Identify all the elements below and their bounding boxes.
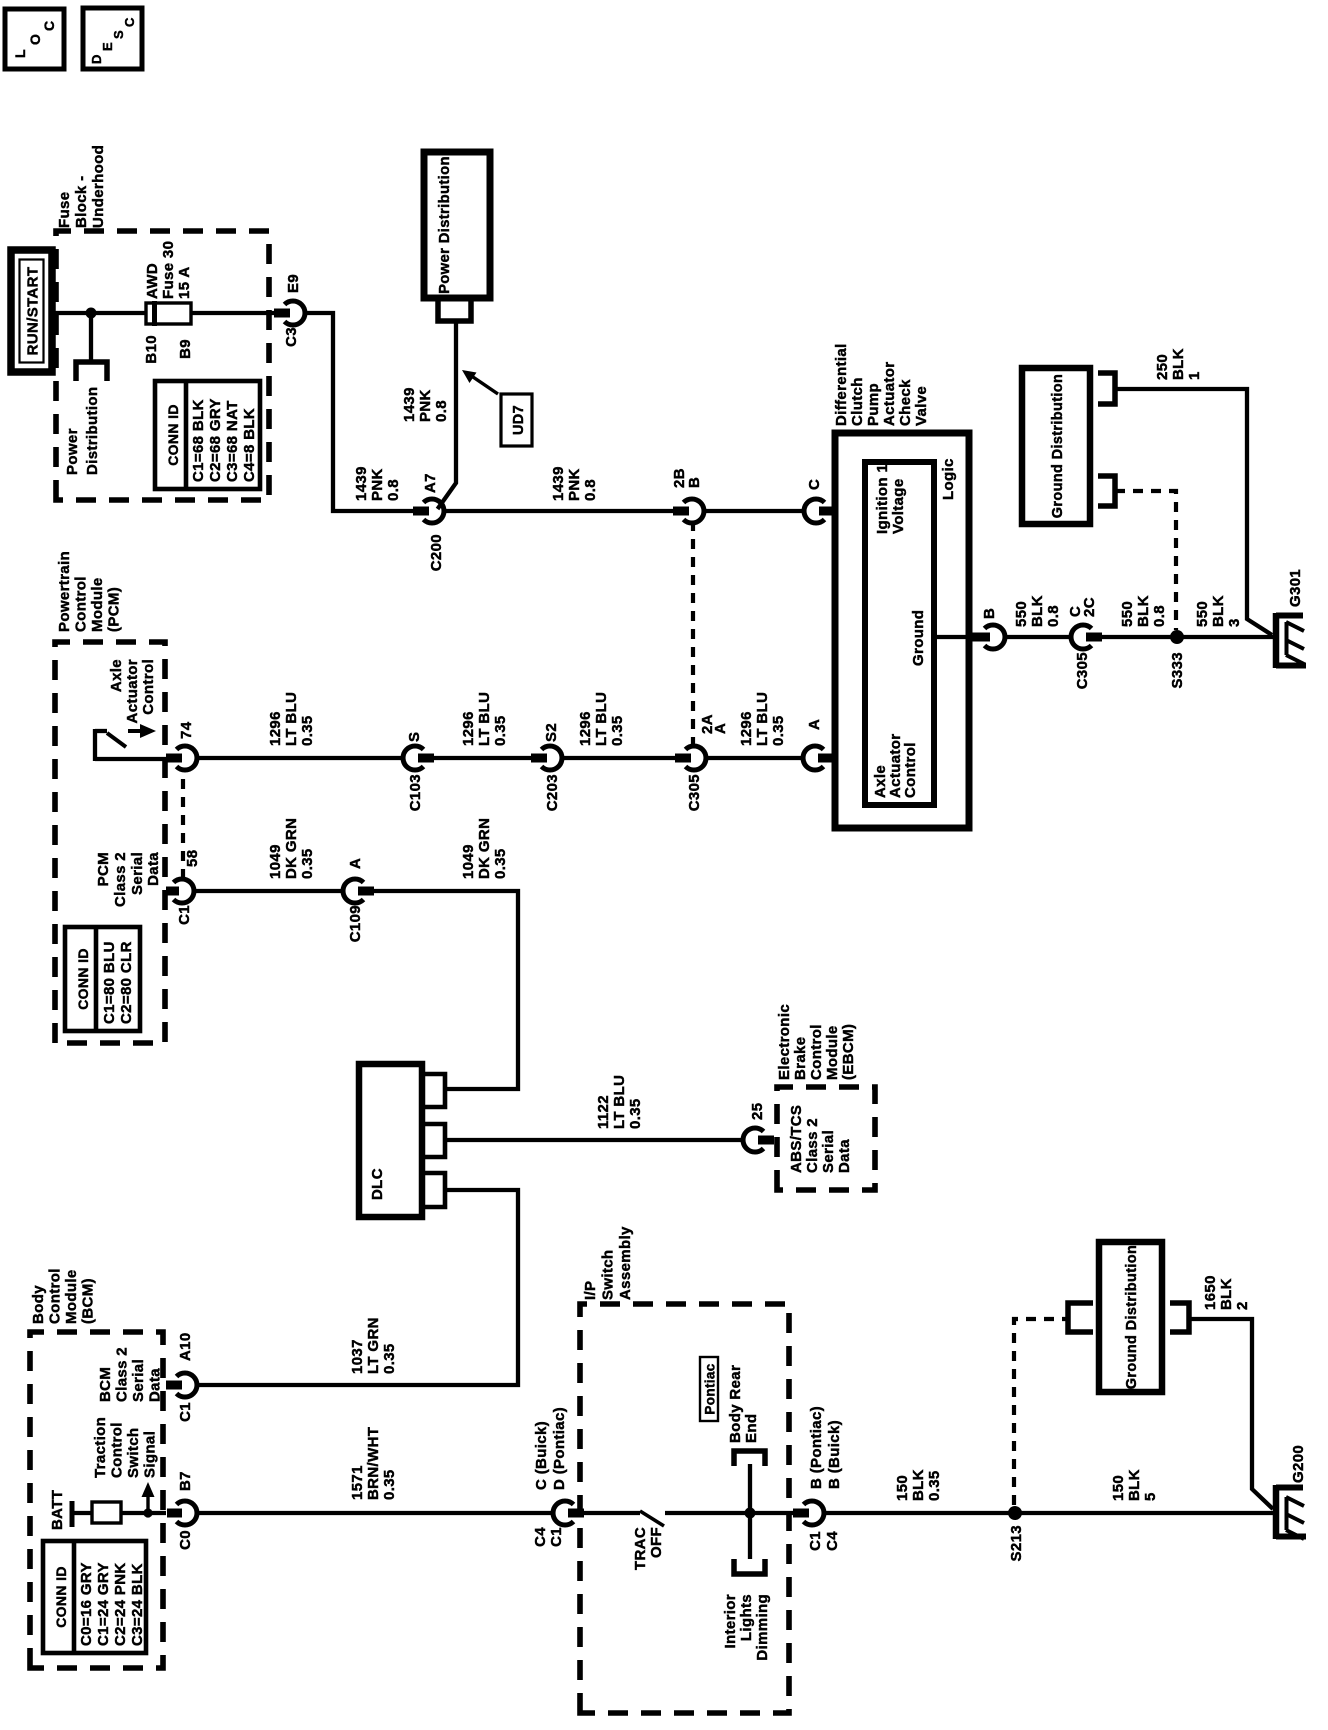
- svg-text:Valve: Valve: [913, 386, 930, 426]
- svg-text:End: End: [743, 1414, 760, 1443]
- svg-text:Pump: Pump: [865, 383, 882, 426]
- svg-text:S213: S213: [1008, 1525, 1025, 1561]
- svg-text:B (Pontiac): B (Pontiac): [808, 1406, 825, 1489]
- svg-text:C0=16 GRY: C0=16 GRY: [78, 1562, 95, 1646]
- wire branch to power distribution bracket: [89, 313, 93, 362]
- svg-text:0.8: 0.8: [385, 479, 402, 501]
- bracket ground distribution dashed: [1098, 476, 1115, 506]
- svg-text:1439: 1439: [550, 466, 567, 501]
- svg-text:Data: Data: [145, 852, 162, 886]
- svg-text:Interior: Interior: [722, 1594, 739, 1648]
- svg-text:Dimming: Dimming: [754, 1594, 771, 1661]
- UD7 option callout: [462, 370, 532, 446]
- svg-text:PNK: PNK: [369, 468, 386, 501]
- svg-text:150: 150: [894, 1475, 911, 1501]
- connector C305 cavity 2B / B: [671, 468, 704, 523]
- svg-text:1439: 1439: [353, 466, 370, 501]
- svg-text:C1=68 BLK: C1=68 BLK: [190, 399, 207, 482]
- svg-text:0.8: 0.8: [1151, 605, 1168, 627]
- splice S333: [1169, 630, 1186, 688]
- svg-text:A10: A10: [177, 1332, 194, 1361]
- page bracket Interior Lights Dimming: [734, 1559, 765, 1574]
- svg-text:UD7: UD7: [511, 405, 527, 435]
- svg-text:C305: C305: [686, 774, 703, 811]
- svg-text:Fuse: Fuse: [56, 192, 73, 228]
- svg-text:Control: Control: [140, 659, 157, 715]
- svg-text:Power Distribution: Power Distribution: [437, 156, 453, 294]
- wire 1037 LT GRN DLC to BCM A10: [196, 1190, 518, 1385]
- wire 1049 DK GRN pin58 to C109: [193, 889, 344, 893]
- wire label 1037 LT GRN 0.35: [349, 1317, 398, 1374]
- svg-text:B: B: [981, 608, 998, 619]
- svg-text:5: 5: [1142, 1492, 1159, 1501]
- junction traction signal: [143, 1508, 152, 1517]
- wire 1650 BLK 2 to G200: [1189, 1319, 1273, 1509]
- wire 1296 LT BLU C305 to valve pin A: [705, 756, 804, 760]
- svg-text:1: 1: [1186, 371, 1203, 380]
- connector C103 / S: [403, 732, 434, 812]
- valve connector pin B: [972, 608, 1005, 649]
- ABS/TCS Class 2 Serial Data label: [788, 1105, 853, 1173]
- connector C305 cavity C / 2C: [1067, 597, 1102, 689]
- svg-text:G301: G301: [1287, 569, 1304, 607]
- Traction Control Switch Signal label: [92, 1417, 159, 1478]
- wire 1571 BRN/WHT B7 to I/P: [196, 1511, 554, 1515]
- wire label 1049 DK GRN 0.35 (PCM-C109): [267, 818, 316, 879]
- BCM CONN ID table: [43, 1541, 146, 1653]
- svg-text:Power: Power: [64, 428, 81, 475]
- svg-text:Data: Data: [836, 1139, 853, 1173]
- svg-text:Ground Distribution: Ground Distribution: [1050, 374, 1066, 518]
- svg-text:Body Rear: Body Rear: [727, 1365, 744, 1443]
- wire 250 BLK 1 to G301: [1115, 389, 1272, 635]
- svg-text:CONN ID: CONN ID: [165, 404, 181, 466]
- svg-text:C109: C109: [347, 905, 364, 942]
- svg-text:A: A: [806, 719, 823, 730]
- svg-text:C3=68 NAT: C3=68 NAT: [224, 400, 241, 482]
- svg-text:C2=80 CLR: C2=80 CLR: [118, 941, 135, 1024]
- svg-text:0.35: 0.35: [381, 1469, 398, 1500]
- svg-text:Axle: Axle: [108, 659, 125, 692]
- svg-text:0.35: 0.35: [627, 1098, 644, 1129]
- connector C3 / E9: [274, 274, 305, 347]
- svg-text:C0: C0: [177, 1530, 194, 1550]
- svg-text:B9: B9: [177, 339, 194, 359]
- splice S213: [1008, 1506, 1025, 1561]
- svg-text:C (Buick): C (Buick): [533, 1421, 550, 1490]
- BCM pin A10: [166, 1332, 197, 1421]
- Differential Clutch Pump Actuator Check Valve label: [833, 343, 930, 426]
- PCM pin 58: [166, 850, 201, 925]
- svg-text:Block -: Block -: [73, 176, 90, 228]
- page bracket Body Rear End: [734, 1451, 765, 1466]
- svg-text:DLC: DLC: [369, 1168, 386, 1200]
- svg-text:TRAC: TRAC: [632, 1527, 649, 1570]
- svg-text:25: 25: [749, 1103, 766, 1120]
- svg-text:C4: C4: [532, 1527, 549, 1547]
- Power Distribution box: [424, 152, 490, 298]
- wire label 1296 LT BLU 0.35 (C305-valve): [738, 692, 787, 746]
- Ground Distribution box (engine): [1022, 368, 1090, 524]
- svg-text:B: B: [686, 477, 703, 488]
- wire 1439 PNK C305 to valve pin C: [703, 509, 805, 513]
- svg-text:I/P: I/P: [582, 1281, 599, 1300]
- svg-text:LT BLU: LT BLU: [283, 692, 300, 746]
- svg-text:1650: 1650: [1202, 1275, 1219, 1310]
- connector C203 / S2: [531, 723, 562, 811]
- bracket ground distribution (upper): [1068, 1303, 1093, 1332]
- BCM Class 2 Serial Data label: [97, 1347, 164, 1402]
- svg-text:C203: C203: [544, 774, 561, 811]
- wire fuse to connector E9: [191, 311, 276, 315]
- svg-text:S: S: [111, 30, 126, 39]
- svg-text:C: C: [806, 479, 823, 490]
- wire 1296 LT BLU pin74 to C103: [196, 756, 404, 760]
- svg-text:D: D: [89, 54, 104, 64]
- svg-text:Differential: Differential: [833, 343, 850, 426]
- svg-text:C3=24 BLK: C3=24 BLK: [129, 1563, 146, 1646]
- PCM pin 74: [166, 721, 197, 770]
- svg-text:Check: Check: [897, 379, 914, 426]
- dashed wire S213 to ground distribution: [1014, 1319, 1066, 1505]
- svg-text:LT BLU: LT BLU: [593, 692, 610, 746]
- svg-text:1439: 1439: [401, 387, 418, 422]
- svg-text:250: 250: [1154, 354, 1171, 380]
- svg-text:PNK: PNK: [566, 468, 583, 501]
- svg-text:BCM: BCM: [97, 1367, 114, 1402]
- page bracket Power Distribution (fuse block): [76, 362, 107, 381]
- svg-text:LT GRN: LT GRN: [365, 1317, 382, 1374]
- svg-text:BATT: BATT: [49, 1490, 66, 1530]
- Axle Actuator Control label (valve): [872, 734, 919, 798]
- ground G200: [1276, 1445, 1307, 1539]
- EBCM pin 25: [743, 1103, 774, 1152]
- wire label 1296 LT BLU 0.35 (PCM-C103): [267, 692, 316, 746]
- connector I/P exit B Pontiac B Buick: [793, 1406, 843, 1551]
- valve connector pin C: [804, 479, 835, 523]
- RUN/START power feed box: [11, 250, 52, 372]
- Electronic Brake Control Module (EBCM) label: [776, 1004, 857, 1080]
- svg-text:B (Buick): B (Buick): [826, 1420, 843, 1489]
- svg-text:0.35: 0.35: [492, 848, 509, 879]
- svg-text:Data: Data: [147, 1368, 164, 1402]
- svg-text:0.35: 0.35: [299, 848, 316, 879]
- svg-text:C200: C200: [428, 534, 445, 571]
- svg-text:A7: A7: [422, 473, 439, 493]
- svg-text:Fuse 30: Fuse 30: [160, 241, 177, 299]
- connector C305 cavity 2A / A: [675, 714, 729, 811]
- PCM Class 2 Serial Data label: [95, 852, 162, 907]
- connector C200 / A7: [413, 473, 445, 571]
- Body Rear End label: [727, 1365, 760, 1443]
- svg-text:Clutch: Clutch: [849, 377, 866, 426]
- svg-text:B7: B7: [177, 1471, 194, 1491]
- wire label 1122 LT BLU 0.35: [595, 1075, 644, 1129]
- svg-text:S333: S333: [1169, 652, 1186, 688]
- svg-text:OFF: OFF: [648, 1527, 665, 1558]
- Data Link Connector DLC box: [359, 1064, 422, 1217]
- BATT feed bar: [49, 1490, 72, 1530]
- svg-text:2C: 2C: [1081, 597, 1098, 617]
- I/P Switch Assembly dashed box: [580, 1304, 789, 1713]
- svg-text:1571: 1571: [349, 1465, 366, 1500]
- svg-text:Class 2: Class 2: [804, 1118, 821, 1173]
- svg-text:C1: C1: [548, 1527, 565, 1547]
- fuse block underhood dashed box: [56, 231, 269, 500]
- svg-text:DK GRN: DK GRN: [283, 818, 300, 879]
- wire 550 BLK C305 to S333: [1100, 635, 1274, 639]
- svg-text:1049: 1049: [267, 844, 284, 879]
- svg-text:1122: 1122: [595, 1095, 612, 1129]
- svg-text:C: C: [122, 17, 137, 27]
- svg-text:C2=68 GRY: C2=68 GRY: [207, 398, 224, 482]
- wire label 1296 LT BLU 0.35 (C103-C203): [460, 692, 509, 746]
- Power Distribution reference label: [64, 387, 101, 475]
- wire resistor to pin B7: [121, 1511, 166, 1515]
- wire label 150 BLK 5: [1110, 1469, 1159, 1501]
- svg-text:C103: C103: [407, 774, 424, 811]
- svg-text:S: S: [406, 732, 423, 742]
- wire RUN/START to fuse B10: [52, 311, 146, 315]
- svg-text:Control: Control: [808, 1024, 825, 1080]
- Powertrain Control Module (PCM) label: [56, 551, 123, 632]
- traction signal arrow: [142, 1482, 155, 1513]
- TRAC OFF switch blade: [640, 1511, 664, 1526]
- wire label 1439 PNK 0.8 (C200-C305): [550, 466, 599, 501]
- wire label 250 BLK 1: [1154, 348, 1203, 380]
- PCM axle actuator driver symbol: [95, 724, 168, 761]
- svg-text:Module: Module: [63, 1269, 80, 1324]
- svg-text:L: L: [12, 49, 28, 58]
- wire into TRAC OFF switch: [582, 1511, 640, 1515]
- svg-text:BLK: BLK: [1135, 595, 1152, 627]
- wire label 1650 BLK 2: [1202, 1275, 1251, 1310]
- svg-text:C4: C4: [824, 1531, 841, 1551]
- svg-text:(PCM): (PCM): [106, 587, 123, 632]
- Fuse Block - Underhood label: [56, 145, 107, 228]
- Pontiac tag: [700, 1357, 718, 1421]
- Interior Lights Dimming label: [722, 1594, 771, 1661]
- svg-text:BLK: BLK: [1029, 595, 1046, 627]
- wire 1122 LT BLU DLC to EBCM: [445, 1138, 744, 1142]
- wire 1439 PNK C200 to C305 2B: [443, 509, 675, 513]
- svg-text:0.35: 0.35: [609, 715, 626, 746]
- svg-text:C: C: [41, 21, 57, 31]
- wire label 150 BLK 0.35: [894, 1469, 943, 1501]
- svg-text:C3: C3: [283, 327, 300, 347]
- svg-text:PCM: PCM: [95, 852, 112, 886]
- svg-text:BLK: BLK: [1170, 348, 1187, 380]
- svg-text:BLK: BLK: [1218, 1278, 1235, 1310]
- svg-text:3: 3: [1226, 618, 1243, 627]
- DESC button: [83, 8, 142, 69]
- fuse AWD Fuse 30 15 A: [144, 241, 193, 326]
- wire 1296 LT BLU C203 to C305: [561, 756, 677, 760]
- Axle Actuator Control label (PCM): [108, 659, 157, 723]
- svg-text:1296: 1296: [738, 711, 755, 746]
- svg-text:Voltage: Voltage: [890, 478, 907, 534]
- svg-text:Powertrain: Powertrain: [56, 551, 73, 632]
- DLC pin stub 3: [422, 1173, 445, 1207]
- svg-text:15 A: 15 A: [176, 266, 193, 299]
- svg-text:C2=24 PNK: C2=24 PNK: [112, 1562, 129, 1646]
- valve logic inner box: [865, 462, 934, 805]
- svg-text:LT BLU: LT BLU: [754, 692, 771, 746]
- svg-text:G200: G200: [1290, 1445, 1307, 1483]
- svg-text:Logic: Logic: [940, 458, 957, 500]
- svg-text:1296: 1296: [267, 711, 284, 746]
- svg-text:Ignition 1: Ignition 1: [874, 464, 891, 534]
- svg-text:Ground Distribution: Ground Distribution: [1124, 1245, 1140, 1389]
- wire label 1296 LT BLU 0.35 (C203-C305): [577, 692, 626, 746]
- wire label 1049 DK GRN 0.35 (C109-DLC): [460, 818, 509, 879]
- svg-text:(EBCM): (EBCM): [840, 1024, 857, 1080]
- bracket ground distribution (lower): [1170, 1303, 1189, 1332]
- ground G301: [1276, 569, 1306, 668]
- svg-text:Serial: Serial: [820, 1130, 837, 1173]
- connector C4 C1 (I/P entry): [532, 1407, 584, 1547]
- Electronic Brake Control Module (EBCM) dashed box: [777, 1087, 875, 1190]
- svg-text:C1: C1: [176, 905, 193, 925]
- svg-text:2: 2: [1234, 1301, 1251, 1310]
- svg-text:Class 2: Class 2: [114, 1347, 131, 1402]
- svg-text:550: 550: [1119, 601, 1136, 627]
- wire 550 BLK valve to C305: [1004, 635, 1072, 639]
- svg-text:O: O: [27, 34, 43, 45]
- svg-text:0.35: 0.35: [770, 715, 787, 746]
- svg-text:Serial: Serial: [129, 852, 146, 895]
- svg-text:E: E: [100, 42, 115, 51]
- wire label 550 BLK 0.8 (valve-C305): [1013, 595, 1062, 627]
- svg-text:C1=80 BLU: C1=80 BLU: [101, 941, 118, 1024]
- svg-text:AWD: AWD: [144, 263, 161, 299]
- wire label 1571 BRN/WHT 0.35: [349, 1427, 398, 1500]
- svg-text:Control: Control: [47, 1268, 64, 1324]
- svg-text:0.35: 0.35: [381, 1343, 398, 1374]
- svg-text:C1=24 GRY: C1=24 GRY: [95, 1562, 112, 1646]
- wire 1439 PNK E9 to C200 A7: [304, 313, 415, 511]
- junction interior lights dimming: [745, 1508, 756, 1519]
- bracket under Power Distribution box: [438, 301, 471, 321]
- svg-text:Module: Module: [824, 1025, 841, 1080]
- svg-text:0.8: 0.8: [582, 479, 599, 501]
- svg-text:Distribution: Distribution: [84, 387, 101, 475]
- svg-text:CONN ID: CONN ID: [75, 948, 91, 1010]
- bracket ground distribution 250 BLK: [1098, 373, 1115, 404]
- svg-text:D (Pontiac): D (Pontiac): [551, 1407, 568, 1490]
- svg-text:1296: 1296: [577, 711, 594, 746]
- fuse block CONN ID table: [155, 381, 260, 489]
- svg-text:0.35: 0.35: [492, 715, 509, 746]
- svg-text:Serial: Serial: [130, 1359, 147, 1402]
- svg-text:0.8: 0.8: [433, 400, 450, 422]
- svg-text:Actuator: Actuator: [124, 659, 141, 723]
- Body Control Module (BCM) dashed box: [30, 1332, 163, 1668]
- LOC button: [5, 9, 64, 69]
- svg-text:Brake: Brake: [792, 1037, 809, 1080]
- wire BATT to resistor: [74, 1511, 92, 1515]
- svg-text:DK GRN: DK GRN: [476, 818, 493, 879]
- svg-text:PNK: PNK: [417, 389, 434, 422]
- svg-text:1296: 1296: [460, 711, 477, 746]
- svg-text:0.35: 0.35: [926, 1470, 943, 1501]
- junction node power feed: [86, 308, 97, 319]
- svg-text:S2: S2: [543, 723, 560, 742]
- svg-text:0.8: 0.8: [1045, 605, 1062, 627]
- svg-text:C305: C305: [1074, 652, 1091, 689]
- svg-text:Signal: Signal: [142, 1431, 159, 1478]
- svg-text:Control: Control: [73, 576, 90, 632]
- svg-text:550: 550: [1013, 601, 1030, 627]
- svg-text:Switch: Switch: [125, 1428, 142, 1478]
- svg-text:(BCM): (BCM): [80, 1278, 97, 1324]
- DLC pin stub 2: [422, 1124, 445, 1157]
- wire 150 BLK I/P to S213: [823, 1511, 1274, 1515]
- wire 1439 PNK power distribution branch: [438, 321, 457, 509]
- wire to interior lights dimming bracket: [748, 1515, 752, 1559]
- svg-text:B10: B10: [143, 335, 160, 364]
- svg-text:Class 2: Class 2: [112, 852, 129, 907]
- svg-text:LT BLU: LT BLU: [611, 1075, 628, 1129]
- I/P Switch Assembly label: [582, 1226, 634, 1300]
- Ignition 1 Voltage label: [874, 464, 907, 534]
- svg-text:0.35: 0.35: [299, 715, 316, 746]
- svg-text:A: A: [712, 723, 729, 734]
- svg-text:58: 58: [184, 850, 201, 867]
- svg-text:Traction: Traction: [92, 1417, 109, 1478]
- dashed connector line C305: [691, 522, 695, 747]
- svg-text:C4=8 BLK: C4=8 BLK: [241, 408, 258, 482]
- svg-text:ABS/TCS: ABS/TCS: [788, 1105, 805, 1173]
- DLC pin stub 1: [422, 1074, 445, 1107]
- dashed wire ground distribution to S333: [1115, 491, 1176, 630]
- wire to body rear end bracket: [748, 1464, 752, 1511]
- svg-text:BLK: BLK: [1126, 1469, 1143, 1501]
- svg-text:RUN/START: RUN/START: [25, 267, 42, 356]
- connector C109 / A: [343, 858, 374, 942]
- svg-text:C1: C1: [807, 1531, 824, 1551]
- Powertrain Control Module (PCM) dashed box: [55, 642, 165, 1043]
- wire label 550 BLK 0.8 (C305-S333): [1119, 595, 1168, 627]
- svg-text:BLK: BLK: [1210, 595, 1227, 627]
- BCM pin B7: [167, 1471, 197, 1550]
- svg-text:Electronic: Electronic: [776, 1004, 793, 1080]
- svg-text:1049: 1049: [460, 844, 477, 879]
- Body Control Module (BCM) label: [30, 1268, 97, 1324]
- resistor traction control pull-up: [92, 1502, 121, 1523]
- svg-text:Pontiac: Pontiac: [703, 1363, 718, 1414]
- svg-text:BLK: BLK: [910, 1469, 927, 1501]
- svg-text:LT BLU: LT BLU: [476, 692, 493, 746]
- dashed connector line PCM C1: [181, 769, 185, 879]
- svg-text:Switch: Switch: [600, 1250, 617, 1300]
- svg-text:E9: E9: [285, 274, 302, 293]
- svg-text:Module: Module: [89, 577, 106, 632]
- wire label 1439 PNK 0.8 (branch): [401, 387, 450, 422]
- Differential Clutch Pump Actuator Check Valve box: [835, 433, 969, 828]
- wire TRAC OFF to junction: [665, 1511, 793, 1515]
- svg-text:C1: C1: [177, 1402, 194, 1422]
- svg-text:Control: Control: [109, 1422, 126, 1478]
- svg-text:74: 74: [178, 721, 195, 739]
- svg-text:550: 550: [1194, 601, 1211, 627]
- TRAC OFF label: [632, 1527, 665, 1570]
- svg-text:150: 150: [1110, 1475, 1127, 1501]
- svg-text:Actuator: Actuator: [881, 362, 898, 426]
- svg-text:BRN/WHT: BRN/WHT: [365, 1427, 382, 1500]
- svg-text:CONN ID: CONN ID: [53, 1566, 69, 1628]
- PCM CONN ID table: [65, 927, 140, 1031]
